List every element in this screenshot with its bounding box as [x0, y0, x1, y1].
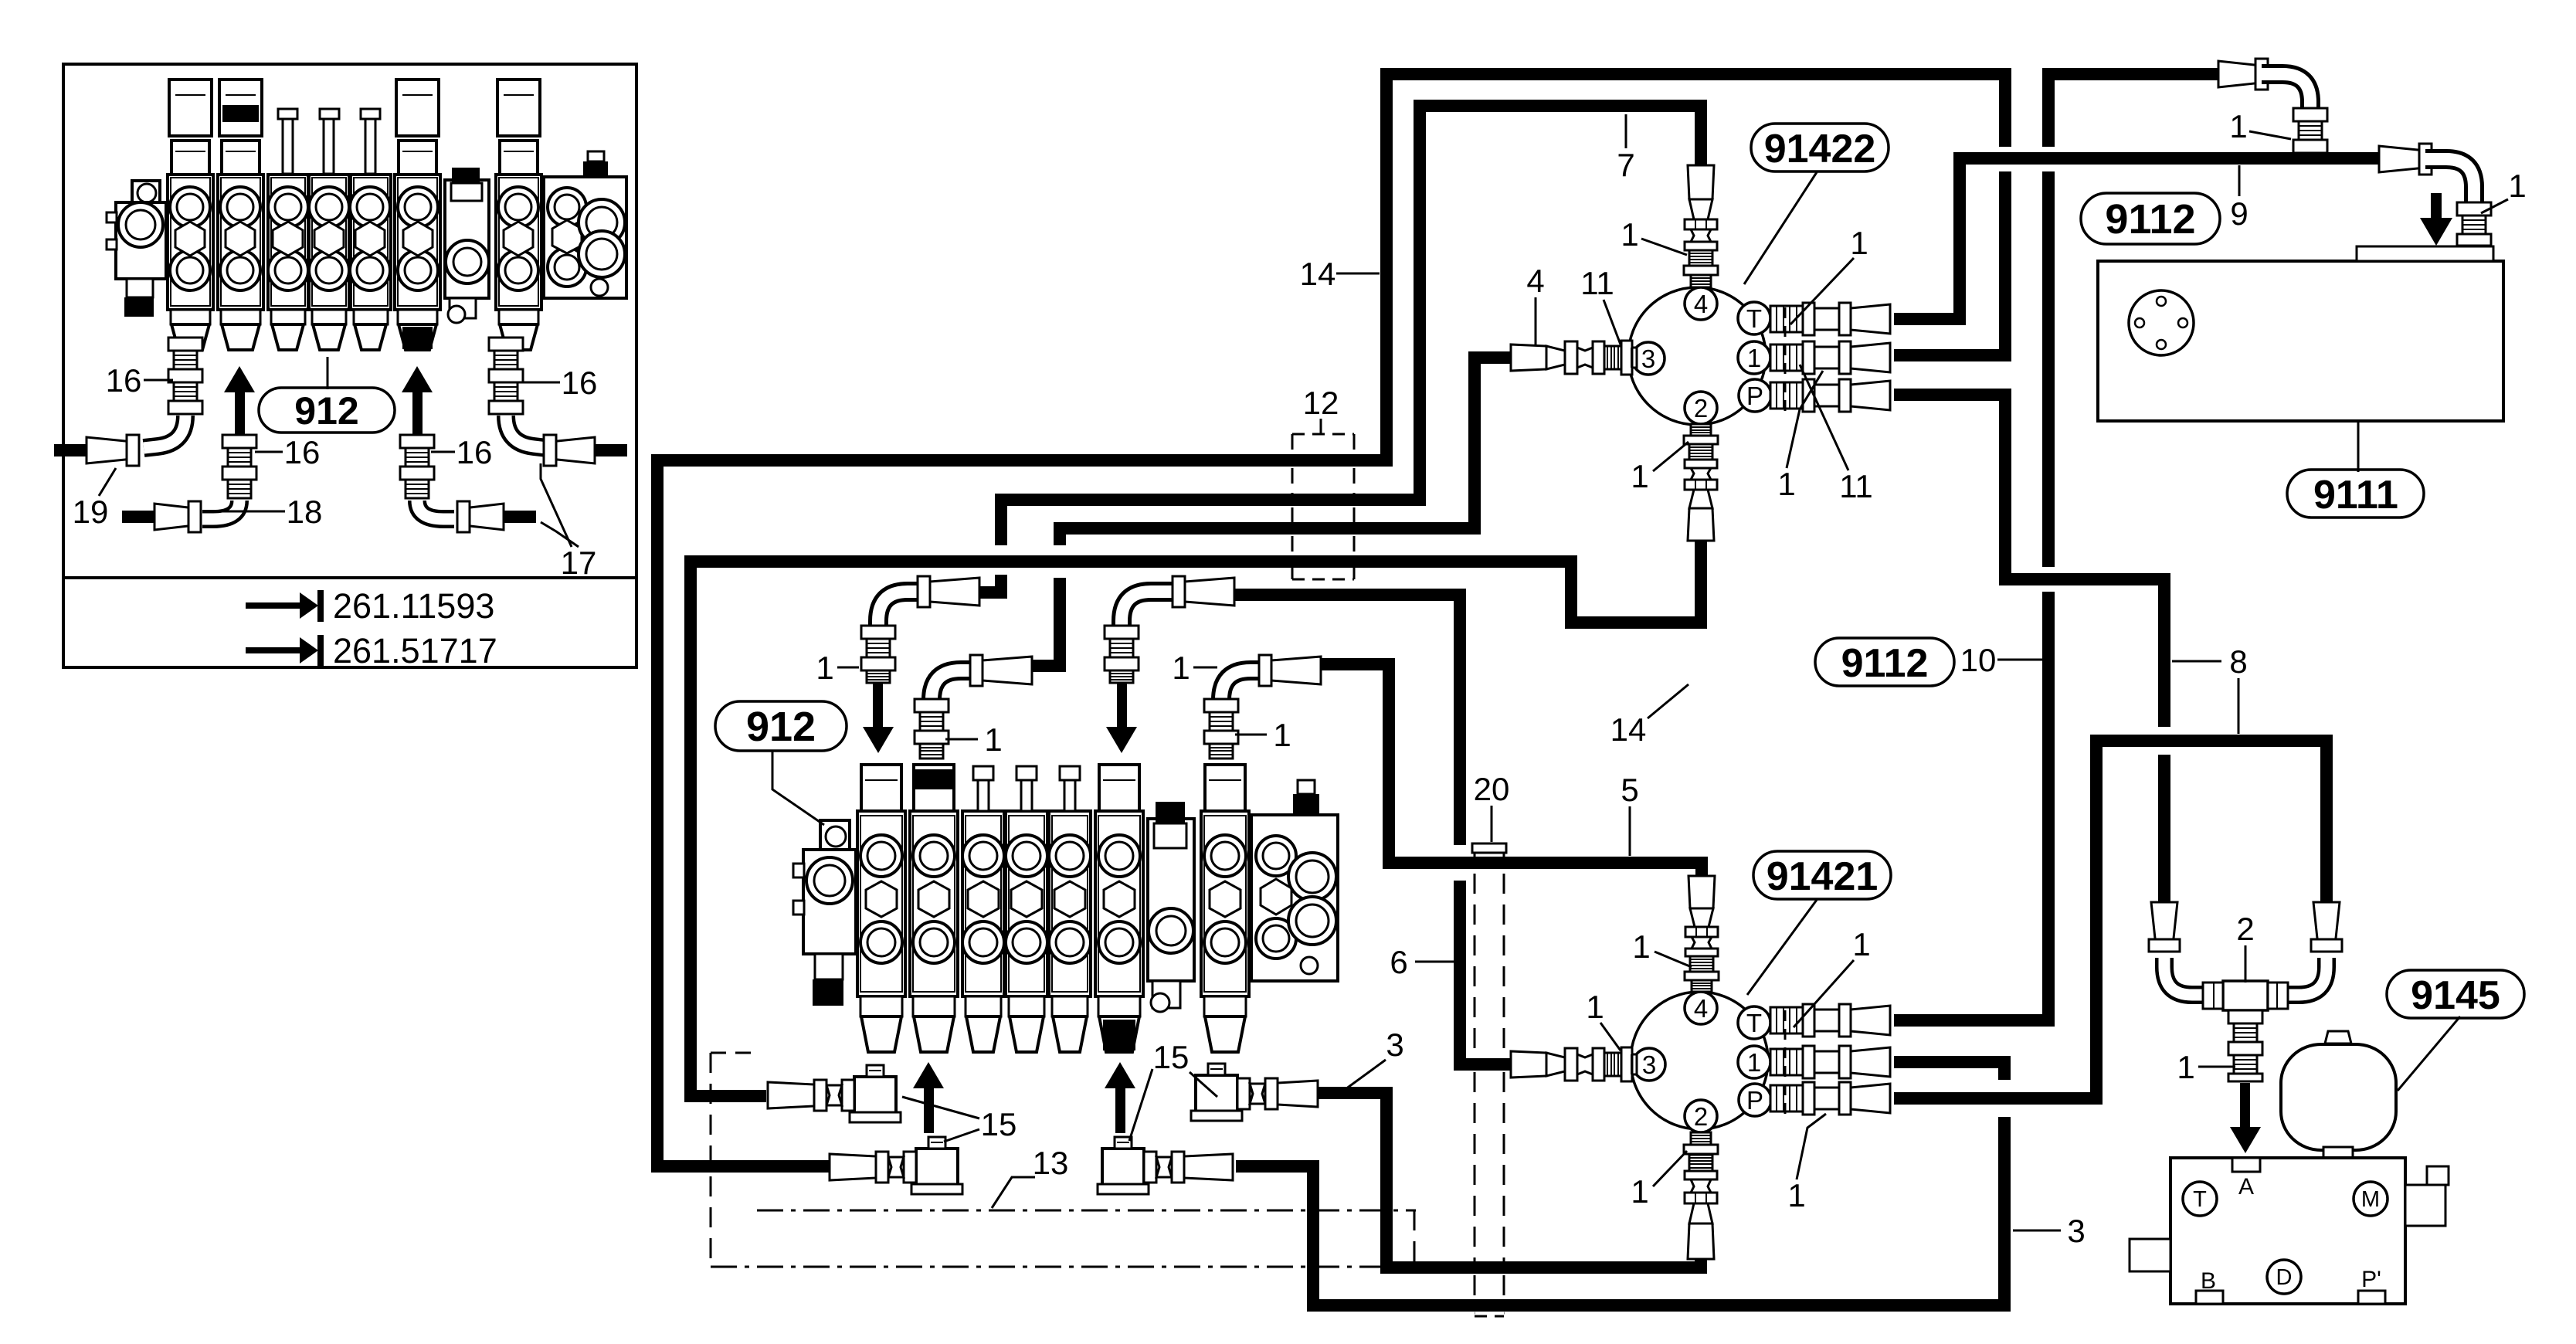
bulkhead pass-through 12 dashed line — [1353, 568, 1356, 579]
tee curved tube left — [2164, 958, 2214, 995]
svg-text:P: P — [1746, 1086, 1763, 1115]
svg-text:16: 16 — [562, 365, 598, 401]
leader 7 — [1625, 114, 1627, 148]
svg-text:1: 1 — [1621, 216, 1638, 253]
leader 20 — [1491, 806, 1493, 842]
fitting row at 91422 right port y=413 — [1770, 306, 1803, 332]
9145 right tab small — [2427, 1166, 2449, 1185]
valve bank 912 (boxed detail assembly) — [132, 181, 160, 203]
svg-text:1: 1 — [1747, 1048, 1761, 1077]
elbow fitting 15 (valve BR1) — [1196, 1075, 1237, 1112]
fitting 1 elbow at tank (hose 10 end) — [2218, 61, 2262, 87]
bulkhead 12 top cap — [1292, 433, 1354, 436]
leader — [1653, 1151, 1687, 1186]
bulkhead pass-through 20 dashed line — [1474, 1072, 1476, 1261]
svg-text:1: 1 — [984, 721, 1002, 758]
bulkhead pass-through 20 dashed line — [1474, 1312, 1476, 1315]
svg-text:8: 8 — [2229, 643, 2247, 680]
svg-text:T: T — [2193, 1187, 2207, 1212]
leader 8 down — [2238, 678, 2240, 734]
svg-text:9112: 9112 — [2105, 196, 2195, 243]
fitting 1+11 train at 91422 port 3 — [1511, 344, 1546, 371]
frame 13 dash-dot line upper — [757, 1210, 1416, 1212]
oval label 91421 — [1753, 851, 1891, 899]
junction coupling plate 91421 — [1631, 992, 1768, 1129]
hose 2 run (91422 P-port to tee left branch, upper) — [1894, 395, 2164, 727]
svg-text:1: 1 — [1586, 989, 1604, 1025]
fitting 1 / elbow U1 above valve (hose 7 entry) — [878, 592, 921, 626]
svg-text:18: 18 — [287, 494, 323, 530]
svg-text:6: 6 — [1390, 944, 1407, 980]
elbow fitting 15 (valve BR2) — [1102, 1149, 1144, 1186]
frame 13 dash-dot line lower — [711, 1266, 1383, 1268]
fitting 1 stack at 91421 port 4 — [1688, 876, 1715, 908]
hose 9 (91422 T-port to tank union) — [1894, 158, 2379, 319]
svg-text:P: P — [1746, 382, 1763, 410]
junction coupling plate 91422 — [1628, 287, 1766, 425]
leader 2 — [2245, 945, 2247, 983]
svg-text:M: M — [2361, 1187, 2380, 1212]
hose-end fitting at tee right — [2313, 902, 2340, 945]
hose 10 (middle part) — [2042, 171, 2055, 567]
svg-text:5: 5 — [1621, 772, 1638, 808]
tank 9111 body — [2098, 261, 2503, 421]
svg-text:15: 15 — [1153, 1039, 1190, 1075]
svg-text:1: 1 — [1631, 458, 1648, 494]
hose 17 stub lower — [502, 511, 536, 523]
bulkhead pass-through 20 dashed line — [1503, 874, 1505, 1058]
hose 7 (to 91422 port 4) — [1001, 106, 1701, 545]
bulkhead 20 bottom cap — [1475, 1315, 1504, 1318]
9145 port A boss — [2232, 1158, 2260, 1172]
leader — [521, 382, 560, 384]
box legend divider — [63, 576, 636, 579]
frame 13 dashed vertical left — [710, 1053, 712, 1267]
bulkhead pass-through 20 dashed line — [1474, 1275, 1476, 1299]
bulkhead pass-through 20 dashed line — [1503, 847, 1505, 857]
svg-text:1: 1 — [1631, 1173, 1648, 1210]
svg-text:12: 12 — [1303, 385, 1339, 421]
9145 port T — [2183, 1182, 2217, 1216]
hose 4 (valve elbow riser, lower part) — [1028, 578, 1060, 666]
box elbow to hose 18 — [202, 501, 239, 519]
accumulator 9145 ball — [2281, 1044, 2396, 1150]
svg-text:1: 1 — [2508, 168, 2526, 204]
fitting 1 elbow at tank (down into lip) — [2379, 146, 2425, 172]
bulkhead pass-through 20 dashed line — [1503, 1072, 1505, 1261]
svg-text:2: 2 — [1694, 394, 1708, 423]
leader — [1655, 952, 1692, 967]
leader 14 left — [1336, 273, 1380, 275]
fitting 1 union stack (hose 5 entry) — [1221, 670, 1263, 700]
valve bank 912 (centre assembly) — [820, 820, 850, 851]
flow arrow into tank — [2431, 193, 2442, 218]
svg-text:19: 19 — [73, 494, 109, 530]
bulkhead pass-through 12 dashed line — [1291, 468, 1294, 494]
fitting 14 hose-end + fitting 1 at 91422 port 2 — [1688, 508, 1714, 541]
leader — [1800, 365, 1848, 470]
svg-text:1: 1 — [1747, 344, 1761, 372]
leader 912 box — [327, 357, 329, 389]
bulkhead pass-through 12 dashed line — [1291, 536, 1294, 554]
bulkhead pass-through 12 dashed line — [1353, 507, 1356, 522]
svg-text:A: A — [2238, 1174, 2254, 1200]
hose 19 stub — [54, 444, 88, 456]
svg-text:1: 1 — [816, 650, 833, 686]
hose 6 (to 91421 port 3) — [1460, 881, 1511, 1064]
svg-text:16: 16 — [284, 434, 321, 470]
leader — [945, 738, 978, 741]
leader 3 right — [2013, 1230, 2061, 1232]
hose 10 (91421 T-port riser, lower part) — [1894, 592, 2048, 1020]
leader 9145 — [2398, 1016, 2460, 1091]
accumulator top plug — [2325, 1031, 2351, 1044]
flow arrow into valve section 1 — [873, 683, 883, 727]
svg-text:3: 3 — [1386, 1027, 1403, 1063]
svg-text:9145: 9145 — [2411, 973, 2500, 1018]
leader 13 — [992, 1177, 1035, 1208]
hose 4 (to 91422 port 3) — [1060, 358, 1511, 545]
leader — [1797, 1114, 1826, 1179]
leader — [1787, 371, 1823, 468]
svg-text:4: 4 — [1694, 290, 1708, 318]
oval label 9145 — [2387, 970, 2524, 1018]
svg-text:4: 4 — [1526, 263, 1544, 299]
bulkhead pass-through 20 dashed line — [1503, 1275, 1505, 1299]
svg-text:20: 20 — [1474, 771, 1510, 807]
svg-text:3: 3 — [1642, 1050, 1656, 1079]
leader 9111 — [2357, 422, 2360, 472]
bulkhead 12 bottom cap — [1292, 579, 1354, 581]
svg-text:11: 11 — [1839, 468, 1873, 504]
svg-text:1: 1 — [1850, 225, 1868, 261]
frame 13 dashed top cap — [711, 1052, 755, 1054]
tank 9111 top lip — [2357, 246, 2493, 261]
flow arrow up into valve (left) — [924, 1088, 934, 1133]
svg-text:9112: 9112 — [1841, 641, 1929, 686]
fitting 1 stack at 91421 port 2 — [1688, 1224, 1714, 1259]
bulkhead pass-through 12 dashed line — [1353, 468, 1356, 494]
hose 3 (segment a: valve BR1 elbow to 91421 port 2) — [1309, 1093, 1701, 1268]
leader 6 — [1415, 961, 1454, 963]
hose 2 run (tee left branch, lower) — [2158, 755, 2170, 904]
flow arrow up into valve (right) — [1115, 1088, 1125, 1133]
svg-text:1: 1 — [2229, 108, 2247, 144]
tank flange bolt hole — [2157, 340, 2166, 349]
fitting row at 91421 right port y=1375 — [1770, 1049, 1803, 1075]
flow arrow into valve section 6 — [1117, 683, 1127, 727]
9145 bottom tab 1 — [2196, 1291, 2223, 1304]
hose 17 stub upper — [593, 444, 627, 456]
bulkhead pass-through 20 dashed line — [1474, 874, 1476, 1058]
fitting 1 union stack (hose 4 entry) — [932, 670, 974, 700]
leader — [144, 379, 173, 382]
leader — [255, 451, 283, 453]
fitting 1+11 train at 91421 port 3 — [1511, 1051, 1546, 1078]
svg-text:912: 912 — [746, 704, 816, 750]
svg-text:T: T — [1746, 304, 1762, 333]
leader 91422 — [1744, 172, 1817, 284]
leader 5 — [1629, 806, 1631, 856]
leader — [99, 468, 116, 496]
fitting row at 91421 right port y=1321 — [1770, 1007, 1803, 1033]
bulkhead pass-through 12 dashed line — [1291, 434, 1294, 454]
hose-end fitting at tee left — [2151, 902, 2177, 945]
svg-text:4: 4 — [1694, 994, 1708, 1023]
tee curved tube right — [2276, 958, 2327, 995]
elbow fitting 15 (valve BL2) — [916, 1149, 958, 1186]
fitting 16 stack (box far left) — [168, 338, 202, 351]
oval label 9112 (mid) — [1815, 638, 1954, 686]
hose 6 (valve right elbow, upper part) — [1230, 595, 1460, 845]
svg-text:D: D — [2276, 1265, 2293, 1290]
svg-text:17: 17 — [561, 545, 597, 581]
box elbow to hose 17a — [506, 416, 547, 448]
fitting row at 91421 right port y=1422 — [1770, 1085, 1803, 1112]
tank flange bolt hole — [2135, 318, 2144, 328]
svg-text:16: 16 — [456, 434, 493, 470]
leader 8 left — [2172, 660, 2221, 663]
svg-text:1: 1 — [1777, 466, 1795, 502]
leader 4 — [1535, 297, 1537, 346]
9145 port D — [2267, 1260, 2301, 1294]
hose 18 stub — [122, 511, 156, 523]
fitting 1 below tee — [2228, 1010, 2262, 1023]
oval label 9111 — [2287, 470, 2424, 518]
leader 91421 — [1747, 900, 1817, 995]
leader — [1129, 1069, 1152, 1141]
fitting 16 stack (box right-2) — [400, 435, 434, 448]
svg-text:9111: 9111 — [2313, 473, 2398, 518]
svg-text:261.51717: 261.51717 — [333, 631, 497, 670]
tank flange bolt hole — [2157, 297, 2166, 306]
leader — [1794, 960, 1854, 1027]
oval label 912 (centre) — [715, 701, 847, 751]
leader — [1648, 684, 1688, 718]
valve block 9145 — [2170, 1158, 2405, 1304]
hose 3 (segment b tail into 91421 port-1 row) — [1894, 1062, 2004, 1080]
leader 3 left — [1346, 1060, 1386, 1089]
oval label 9112 (top) — [2081, 193, 2220, 244]
accumulator bottom stem — [2323, 1147, 2353, 1158]
svg-text:1: 1 — [2177, 1049, 2194, 1085]
svg-text:1: 1 — [1632, 928, 1650, 965]
svg-text:15: 15 — [981, 1106, 1017, 1142]
fitting 1 / elbow above valve (hose 6 entry) — [1122, 592, 1176, 626]
oval label 912 (in box) — [259, 388, 395, 433]
svg-text:P': P' — [2361, 1267, 2381, 1292]
legend arrow 2 — [246, 647, 301, 653]
svg-text:1: 1 — [1852, 926, 1870, 962]
9145 port M — [2354, 1182, 2388, 1216]
svg-text:9: 9 — [2230, 195, 2248, 232]
hose 7 (valve elbow U1 riser, lower part) — [976, 575, 1001, 592]
svg-text:10: 10 — [1960, 642, 1997, 678]
svg-text:2: 2 — [2236, 911, 2254, 947]
fitting row at 91422 right port y=463 — [1770, 344, 1803, 371]
assembly dashed line 91422 right cluster — [1784, 307, 1787, 417]
bulkhead pass-through 12 dashed line — [1291, 568, 1294, 579]
fitting 16 stack (box left-2) — [222, 435, 256, 448]
hose 14 (segment a: valve BL2 elbow to corner run) — [657, 74, 2005, 1166]
9145 left tab — [2130, 1239, 2170, 1271]
elbow fitting 15 (valve BL1) — [854, 1077, 896, 1114]
leader 10 — [1997, 659, 2042, 661]
bulkhead pass-through 20 dashed line — [1474, 847, 1476, 857]
bulkhead pass-through 12 dashed line — [1353, 434, 1356, 454]
fitting row at 91422 right port y=512 — [1770, 382, 1803, 409]
legend arrow 1 — [246, 602, 301, 609]
svg-text:91421: 91421 — [1767, 854, 1879, 899]
flow arrow from tee to 9145 block — [2240, 1083, 2250, 1127]
svg-text:16: 16 — [106, 362, 142, 399]
svg-text:1: 1 — [1787, 1177, 1805, 1213]
assembly dashed line 91421 right cluster — [1784, 1010, 1787, 1122]
leader 11 — [1604, 300, 1621, 344]
leader 12 — [1320, 419, 1322, 434]
leader — [541, 463, 572, 547]
svg-text:14: 14 — [1610, 711, 1647, 748]
bulkhead pass-through 12 dashed line — [1353, 536, 1356, 554]
leader 912 centre — [772, 751, 824, 825]
flow arrow up into box valve (left) — [235, 392, 245, 435]
leader — [2249, 131, 2291, 139]
leader — [431, 451, 455, 453]
fitting 1 stack at 91422 port 4 — [1688, 165, 1714, 199]
hose 10 (top run to tank elbow) — [2048, 74, 2218, 147]
flow arrow up into box valve (right) — [412, 392, 423, 435]
box frame around valve detail 912 — [63, 64, 636, 667]
svg-text:11: 11 — [1580, 265, 1614, 301]
svg-text:91422: 91422 — [1764, 127, 1876, 171]
svg-text:3: 3 — [2067, 1213, 2085, 1249]
9145 right tab big — [2405, 1185, 2445, 1226]
leader 9 — [2238, 165, 2241, 196]
leader — [2481, 199, 2508, 213]
leader — [837, 667, 859, 669]
hose 14 (segment a tail into 91422 port-1 row) — [1894, 171, 2005, 355]
leader — [2198, 1066, 2235, 1068]
hose 14 (segment b: 91422 port 2 down to valve BL1 elbow) — [691, 541, 1701, 1096]
bulkhead pass-through 12 dashed line — [1291, 507, 1294, 522]
fitting 16 stack (box far right) — [489, 338, 523, 351]
leader — [1790, 258, 1854, 324]
hose 5 (valve right elbow to 91421 port 4) — [1318, 664, 1702, 876]
oval label 91422 — [1751, 124, 1889, 171]
leader — [1653, 442, 1688, 471]
svg-text:1: 1 — [1172, 650, 1190, 686]
hose 8 (91421 P-port to tee right branch) — [1894, 741, 2327, 1098]
box elbow to hose 19 — [144, 416, 185, 448]
frame 13 dashed vertical right — [1414, 1210, 1416, 1267]
bulkhead pass-through 20 dashed line — [1503, 1312, 1505, 1315]
svg-text:7: 7 — [1617, 147, 1634, 183]
svg-text:261.11593: 261.11593 — [333, 586, 494, 626]
bulkhead 20 top cap — [1472, 843, 1506, 853]
box elbow to hose 17b — [417, 501, 454, 519]
tank flange bolt hole — [2178, 318, 2187, 328]
leader — [1235, 734, 1267, 736]
svg-text:912: 912 — [294, 389, 358, 433]
svg-text:2: 2 — [1694, 1102, 1708, 1131]
svg-text:1: 1 — [1273, 717, 1291, 753]
svg-text:13: 13 — [1033, 1145, 1069, 1181]
leader — [1641, 239, 1687, 255]
leader — [1600, 1023, 1621, 1050]
svg-text:14: 14 — [1300, 256, 1336, 292]
hose 3 (segment b: valve BR2 elbow toward 91421 port-1 row) — [1236, 1117, 2004, 1305]
leader — [1193, 667, 1217, 669]
tank 9111 filler flange — [2129, 290, 2194, 355]
leader — [207, 511, 285, 513]
9145 bottom tab 2 — [2358, 1291, 2385, 1304]
leader — [902, 1097, 979, 1118]
svg-text:T: T — [1746, 1009, 1762, 1037]
svg-text:3: 3 — [1641, 344, 1655, 373]
tee fitting 2 body — [2223, 981, 2268, 1010]
